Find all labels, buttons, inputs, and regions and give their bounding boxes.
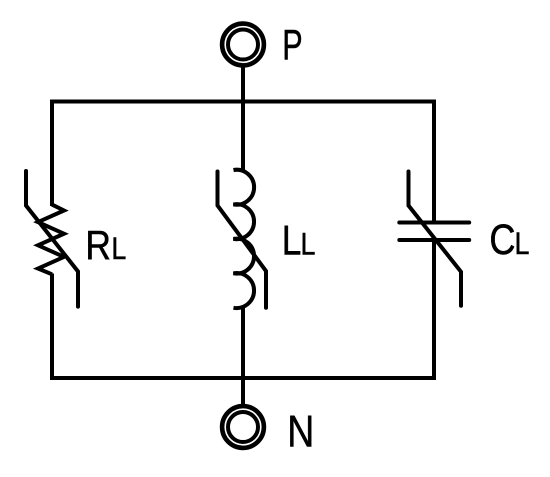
wire top rail (50, 100, 436, 104)
capacitor CL bottom plate (399, 238, 469, 242)
label RL (85, 223, 126, 269)
svg-text:L: L (515, 226, 530, 262)
svg-text:P: P (282, 22, 302, 69)
wire right rail lower (432, 240, 436, 380)
svg-text:N: N (287, 406, 314, 456)
svg-text:C: C (489, 216, 515, 264)
terminal N (222, 406, 264, 448)
terminal P (222, 24, 264, 66)
label CL (489, 216, 529, 264)
svg-text:R: R (85, 223, 111, 269)
resistor RL adjustable arrow (26, 171, 78, 307)
svg-text:L: L (111, 231, 126, 267)
wire left rail upper (50, 100, 54, 207)
inductor LL (233, 170, 254, 308)
wire top rail to inductor (241, 102, 245, 172)
capacitor CL adjustable arrow (409, 172, 462, 306)
resistor RL (38, 205, 64, 275)
svg-text:L: L (301, 226, 316, 262)
wire left rail lower (50, 274, 54, 381)
wire right rail upper (432, 100, 436, 223)
wire inductor to bottom rail (241, 307, 245, 378)
capacitor CL top plate (399, 221, 469, 225)
inductor LL adjustable arrow (218, 172, 267, 308)
wire P to top rail (241, 68, 245, 102)
svg-text:L: L (282, 218, 302, 265)
wire bottom rail (50, 376, 436, 380)
label LL (282, 218, 316, 265)
wire bottom rail to N (241, 378, 245, 405)
